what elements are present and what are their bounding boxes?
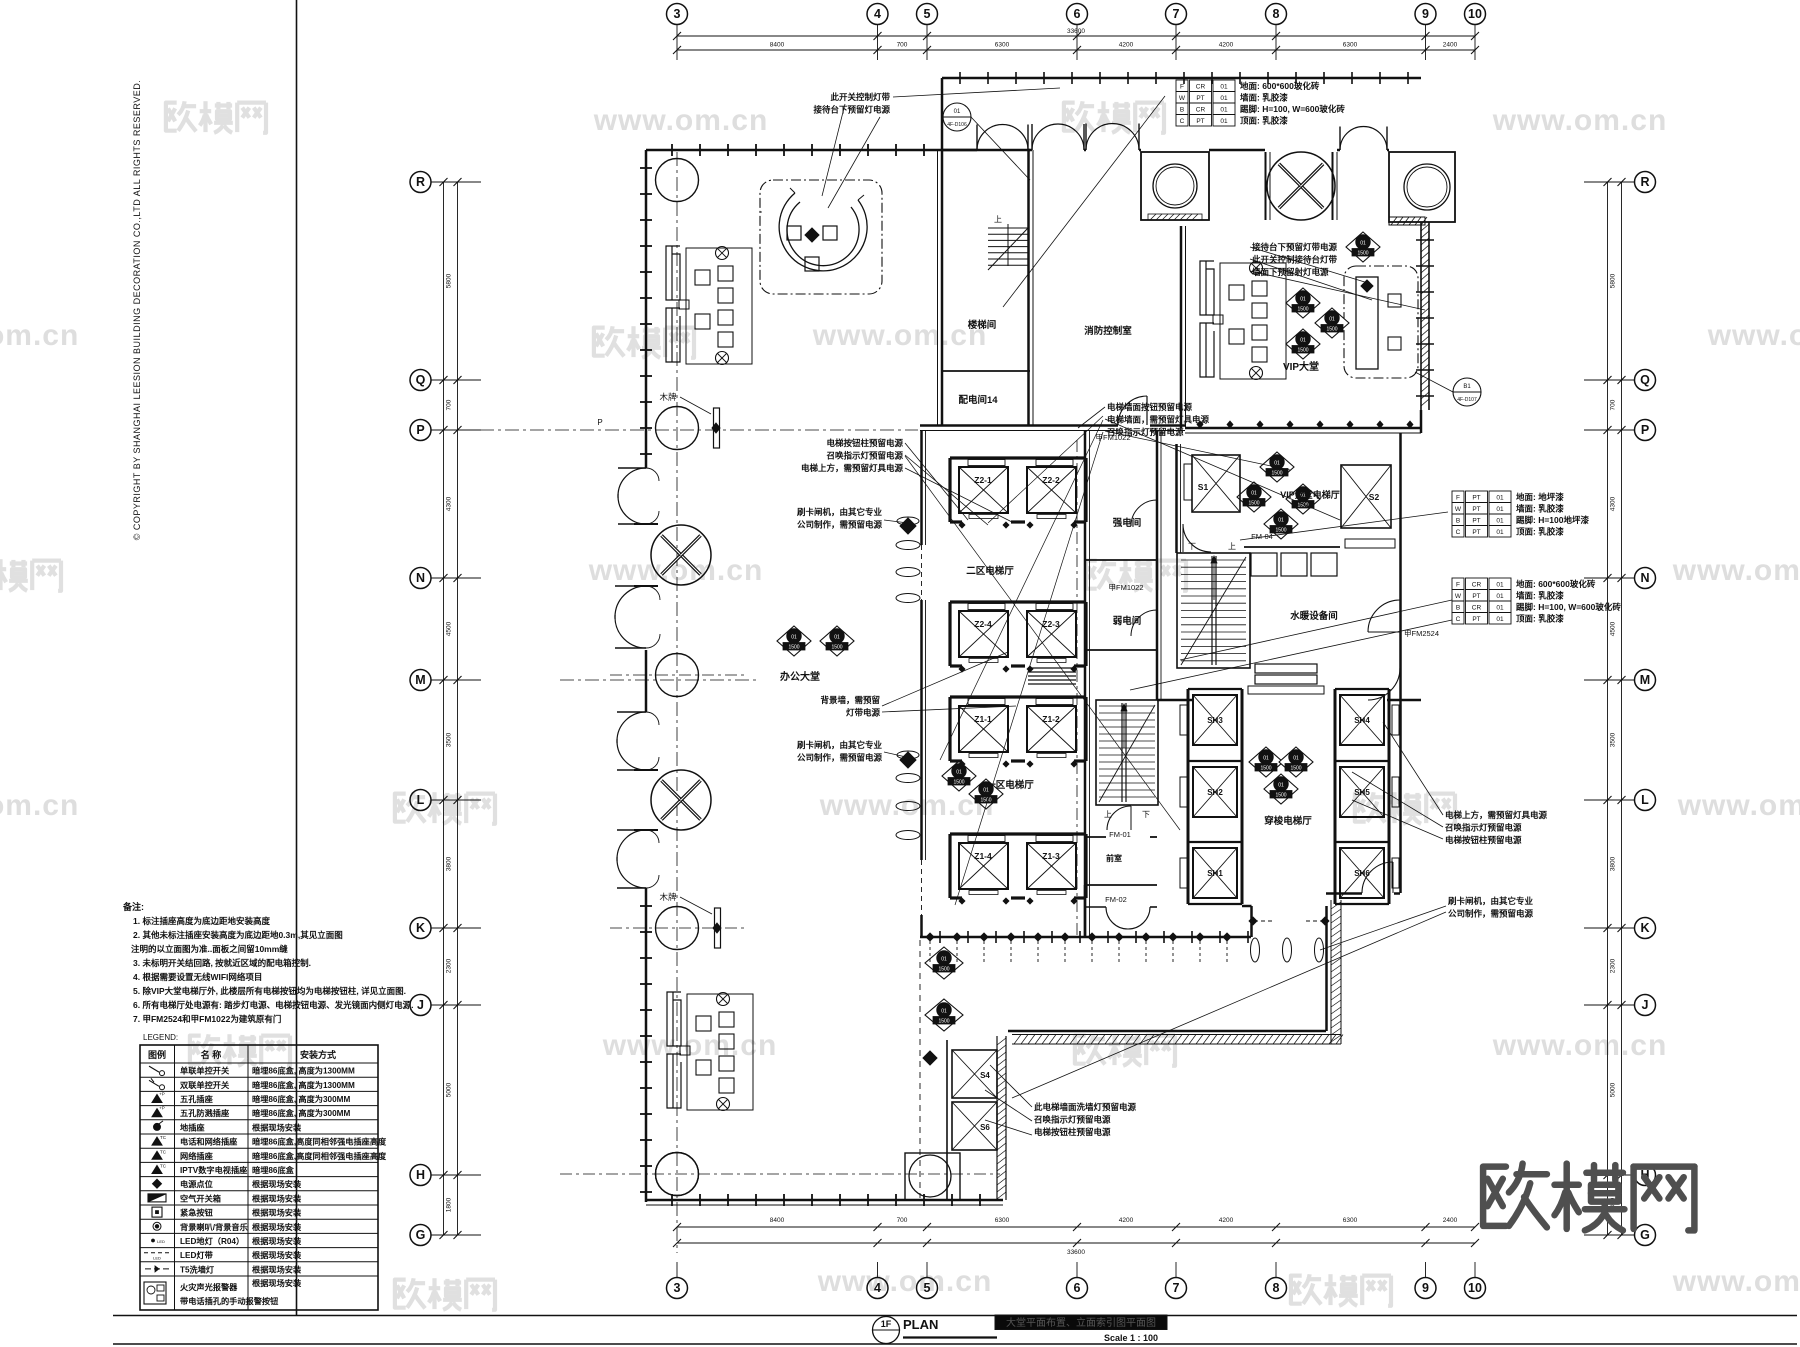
svg-text:办公大堂: 办公大堂 [780,670,820,683]
svg-text:www.om.cn: www.om.cn [1707,319,1800,352]
svg-text:背景喇叭/背景音乐: 背景喇叭/背景音乐 [180,1222,249,1232]
svg-text:01: 01 [791,635,797,641]
svg-text:4: 4 [874,7,881,21]
svg-text:TC: TC [160,1135,167,1140]
svg-text:踢脚: H=100, W=600玻化砖: 踢脚: H=100, W=600玻化砖 [1240,104,1345,114]
svg-text:5000: 5000 [446,1082,453,1097]
svg-text:01: 01 [1496,605,1504,612]
svg-text:电梯按钮柱预留电源: 电梯按钮柱预留电源 [1445,835,1522,845]
svg-text:1500: 1500 [1275,793,1286,799]
svg-text:01: 01 [1300,297,1306,303]
svg-text:五孔防溅插座: 五孔防溅插座 [180,1108,230,1118]
svg-text:4300: 4300 [1610,496,1617,511]
svg-text:穿梭电梯厅: 穿梭电梯厅 [1264,815,1312,827]
svg-text:刷卡闸机，由其它专业: 刷卡闸机，由其它专业 [796,507,883,517]
svg-text:www.om.cn: www.om.cn [0,789,79,822]
svg-text:根据现场安装: 根据现场安装 [252,1122,302,1132]
svg-text:五孔插座: 五孔插座 [180,1094,214,1104]
svg-text:L: L [1641,793,1649,807]
svg-text:R: R [1640,175,1649,189]
svg-text:www.om.cn: www.om.cn [817,1265,993,1298]
svg-text:二区电梯厅: 二区电梯厅 [966,565,1014,577]
svg-text:01: 01 [1220,95,1228,102]
svg-text:7: 7 [1173,1281,1180,1295]
svg-text:暗埋86底盒,高度同相邻强电插座高度: 暗埋86底盒,高度同相邻强电插座高度 [252,1151,387,1161]
svg-text:2. 其他未标注插座安装高度为底边距地0.3m,其见立面图: 2. 其他未标注插座安装高度为底边距地0.3m,其见立面图 [133,930,343,940]
svg-text:3800: 3800 [1610,856,1617,871]
svg-text:F: F [1180,84,1184,91]
svg-text:公司制作，需预留电源: 公司制作，需预留电源 [797,520,883,530]
svg-text:© COPYRIGHT BY SHANGHAI LE: © COPYRIGHT BY SHANGHAI LEESION BUILDING… [132,80,142,541]
svg-text:根据现场安装: 根据现场安装 [252,1208,302,1218]
svg-text:单联单控开关: 单联单控开关 [180,1066,230,1076]
svg-text:安装方式: 安装方式 [300,1049,336,1060]
svg-text:顶面: 乳胶漆: 顶面: 乳胶漆 [1240,116,1288,126]
svg-text:P: P [1641,423,1649,437]
svg-text:01: 01 [1274,461,1280,467]
svg-text:地插座: 地插座 [180,1122,205,1132]
svg-text:CR: CR [1196,84,1206,91]
svg-text:弱电间: 弱电间 [1113,615,1142,627]
svg-text:墙面下预留射灯电源: 墙面下预留射灯电源 [1252,267,1329,277]
svg-text:地面: 地坪漆: 地面: 地坪漆 [1516,492,1564,502]
svg-text:www.om.cn: www.om.cn [1672,1265,1800,1298]
svg-text:B: B [1456,518,1460,525]
svg-text:上: 上 [1228,542,1236,551]
svg-text:FM-04: FM-04 [1251,532,1273,541]
svg-text:楼梯间: 楼梯间 [968,319,997,331]
svg-text:01: 01 [1278,783,1284,789]
svg-text:木牌: 木牌 [659,392,677,402]
svg-text:暗埋86底盒, 高度为1300MM: 暗埋86底盒, 高度为1300MM [252,1066,355,1076]
svg-text:3800: 3800 [446,856,453,871]
svg-text:6300: 6300 [995,42,1010,49]
svg-text:01: 01 [1360,241,1366,247]
svg-text:踢脚: H=100, W=600玻化砖: 踢脚: H=100, W=600玻化砖 [1516,602,1621,612]
svg-text:消防控制室: 消防控制室 [1084,325,1132,337]
svg-text:暗埋86底盒: 暗埋86底盒 [252,1165,295,1175]
svg-text:SH4: SH4 [1354,716,1370,725]
svg-text:暗埋86底盒, 高度为300MM: 暗埋86底盒, 高度为300MM [252,1108,350,1118]
svg-text:S1: S1 [1198,482,1209,492]
svg-text:PT: PT [1472,616,1480,623]
svg-text:6: 6 [1074,1281,1081,1295]
svg-text:SH5: SH5 [1354,788,1370,797]
svg-text:暗埋86底盒,高度同相邻强电插座高度: 暗埋86底盒,高度同相邻强电插座高度 [252,1137,387,1147]
svg-text:木牌: 木牌 [659,892,677,902]
svg-text:www.om.cn: www.om.cn [593,104,769,137]
svg-text:4200: 4200 [1219,1217,1234,1224]
svg-text:1500: 1500 [1271,471,1282,477]
svg-text:700: 700 [446,399,453,410]
svg-text:2300: 2300 [1610,958,1617,973]
svg-text:FM-02: FM-02 [1105,895,1127,904]
svg-text:700: 700 [1610,399,1617,410]
svg-text:PT: PT [1472,518,1480,525]
svg-text:9: 9 [1422,7,1429,21]
svg-text:公司制作，需预留电源: 公司制作，需预留电源 [797,753,883,763]
svg-text:Z1-3: Z1-3 [1042,851,1060,861]
svg-text:01: 01 [1300,338,1306,344]
svg-text:2400: 2400 [1443,1217,1458,1224]
svg-text:电话和网络插座: 电话和网络插座 [180,1137,238,1147]
svg-text:G: G [416,1228,426,1242]
svg-text:SH1: SH1 [1207,869,1223,878]
svg-text:电梯上方，需预留灯具电源: 电梯上方，需预留灯具电源 [801,463,904,473]
svg-text:根据现场安装: 根据现场安装 [252,1250,302,1260]
svg-text:3500: 3500 [1610,732,1617,747]
svg-text:01: 01 [1220,118,1228,125]
svg-text:www.om.cn: www.om.cn [812,319,988,352]
svg-text:带电话插孔的手动报警按钮: 带电话插孔的手动报警按钮 [180,1296,279,1306]
svg-text:1500: 1500 [980,798,991,804]
svg-text:召唤指示灯预留电源: 召唤指示灯预留电源 [1034,1115,1111,1125]
svg-text:2400: 2400 [1443,42,1458,49]
svg-text:名 称: 名 称 [201,1049,222,1060]
svg-text:根据现场安装: 根据现场安装 [252,1222,302,1232]
svg-text:图例: 图例 [148,1049,166,1060]
svg-text:01: 01 [1496,529,1504,536]
svg-text:2300: 2300 [446,958,453,973]
svg-text:1500: 1500 [1260,766,1271,772]
svg-text:LED灯带: LED灯带 [180,1250,213,1260]
svg-text:01: 01 [834,635,840,641]
svg-text:1500: 1500 [1248,501,1259,507]
svg-text:T5洗墙灯: T5洗墙灯 [180,1264,215,1274]
svg-text:1500: 1500 [938,967,949,973]
svg-text:4500: 4500 [1610,621,1617,636]
svg-text:K: K [1640,921,1649,935]
svg-text:8: 8 [1273,7,1280,21]
svg-text:根据现场安装: 根据现场安装 [252,1179,302,1189]
svg-text:G: G [1640,1228,1650,1242]
svg-text:8400: 8400 [770,42,785,49]
svg-text:备注:: 备注: [122,901,144,912]
svg-text:1500: 1500 [1326,327,1337,333]
svg-text:1500: 1500 [1297,307,1308,313]
svg-text:www.om.cn: www.om.cn [1492,1029,1668,1062]
svg-text:M: M [1640,673,1650,687]
svg-text:此电梯墙面洗墙灯预留电源: 此电梯墙面洗墙灯预留电源 [1034,1102,1137,1112]
svg-text:5000: 5000 [1610,1082,1617,1097]
svg-text:甲FM1022: 甲FM1022 [1108,583,1143,592]
svg-text:接待台下预留灯电源: 接待台下预留灯电源 [813,105,890,115]
svg-text:PT: PT [1196,118,1204,125]
svg-text:www.om.cn: www.om.cn [1672,554,1800,587]
svg-text:强电间: 强电间 [1113,517,1142,529]
svg-text:+P: +P [159,1092,165,1097]
svg-text:01: 01 [1496,506,1504,513]
svg-text:刷卡闸机，由其它专业: 刷卡闸机，由其它专业 [1447,896,1534,906]
svg-text:01: 01 [1496,495,1504,502]
svg-text:Q: Q [1640,373,1650,387]
svg-text:LED地灯（R04）: LED地灯（R04） [180,1236,244,1246]
svg-text:01: 01 [1496,518,1504,525]
svg-text:电梯按钮柱预留电源: 电梯按钮柱预留电源 [1034,1127,1111,1137]
svg-text:4. 根据需要设置无线WIFI网络项目: 4. 根据需要设置无线WIFI网络项目 [133,972,262,982]
svg-text:J: J [1642,998,1649,1012]
svg-text:+P: +P [159,1106,165,1111]
svg-text:LED: LED [153,1256,161,1261]
svg-text:前室: 前室 [1106,853,1122,863]
svg-text:01: 01 [941,1009,947,1015]
svg-text:W: W [1455,593,1462,600]
svg-text:召唤指示灯预留电源: 召唤指示灯预留电源 [1445,823,1522,833]
svg-text:此开关控制灯带: 此开关控制灯带 [830,92,890,102]
svg-text:B: B [1456,605,1460,612]
svg-text:4: 4 [874,1281,881,1295]
svg-text:W: W [1179,95,1186,102]
svg-text:PT: PT [1472,529,1480,536]
svg-text:S4: S4 [980,1071,990,1080]
svg-text:N: N [1640,571,1649,585]
svg-text:5800: 5800 [446,273,453,288]
svg-text:1500: 1500 [1275,528,1286,534]
svg-text:PT: PT [1472,495,1480,502]
svg-text:01: 01 [941,957,947,963]
svg-text:8400: 8400 [770,1217,785,1224]
svg-text:01: 01 [1329,317,1335,323]
svg-text:甲FM2524: 甲FM2524 [1404,629,1439,638]
svg-text:1500: 1500 [953,780,964,786]
svg-text:Z2-2: Z2-2 [1042,475,1060,485]
svg-text:4500: 4500 [446,621,453,636]
svg-text:PT: PT [1196,95,1204,102]
svg-text:电源点位: 电源点位 [180,1179,213,1189]
svg-text:LEGEND:: LEGEND: [143,1033,178,1042]
svg-text:踢脚: H=100地坪漆: 踢脚: H=100地坪漆 [1516,515,1589,525]
svg-text:1500: 1500 [1357,251,1368,257]
svg-text:3: 3 [674,7,681,21]
svg-text:空气开关箱: 空气开关箱 [180,1193,221,1203]
svg-text:6: 6 [1074,7,1081,21]
svg-text:www.om.cn: www.om.cn [0,319,79,352]
svg-text:召唤指示灯预留电源: 召唤指示灯预留电源 [1107,427,1184,437]
svg-text:紧急按钮: 紧急按钮 [180,1208,214,1218]
svg-text:公司制作，需预留电源: 公司制作，需预留电源 [1448,909,1534,919]
svg-text:此开关控制接待台灯带: 此开关控制接待台灯带 [1252,255,1338,265]
svg-text:电梯上方，需预留灯具电源: 电梯上方，需预留灯具电源 [1445,810,1548,820]
svg-text:M: M [415,673,425,687]
svg-text:地面: 600*600玻化砖: 地面: 600*600玻化砖 [1240,81,1320,91]
svg-text:一区电梯厅: 一区电梯厅 [986,779,1034,791]
svg-text:根据现场安装: 根据现场安装 [252,1193,302,1203]
svg-text:6300: 6300 [995,1217,1010,1224]
svg-text:地面: 600*600玻化砖: 地面: 600*600玻化砖 [1516,579,1596,589]
svg-text:水暖设备间: 水暖设备间 [1290,610,1338,622]
svg-text:C: C [1456,616,1461,623]
svg-text:暗埋86底盒, 高度为1300MM: 暗埋86底盒, 高度为1300MM [252,1080,355,1090]
svg-text:N: N [416,571,425,585]
svg-text:9: 9 [1422,1281,1429,1295]
svg-text:S2: S2 [1369,492,1380,502]
svg-text:Z1-2: Z1-2 [1042,714,1060,724]
svg-text:S6: S6 [980,1123,990,1132]
svg-text:PLAN: PLAN [903,1317,938,1332]
svg-text:Z1-1: Z1-1 [974,714,992,724]
svg-text:R: R [416,175,425,189]
svg-text:3. 未标明开关结回路, 按就近区域的配电箱控制.: 3. 未标明开关结回路, 按就近区域的配电箱控制. [133,958,311,968]
svg-text:暗埋86底盒, 高度为300MM: 暗埋86底盒, 高度为300MM [252,1094,350,1104]
svg-text:CR: CR [1472,582,1482,589]
svg-text:4300: 4300 [446,496,453,511]
svg-text:上: 上 [994,215,1002,224]
svg-text:1F: 1F [881,1319,892,1329]
svg-text:墙面: 乳胶漆: 墙面: 乳胶漆 [1516,591,1564,601]
svg-text:Z2-3: Z2-3 [1042,619,1060,629]
svg-text:CR: CR [1472,605,1482,612]
svg-text:电梯墙面，需预留灯具电源: 电梯墙面，需预留灯具电源 [1107,415,1210,425]
svg-text:网络插座: 网络插座 [180,1151,214,1161]
svg-text:6. 所有电梯厅处电源有: 踏步灯电源、电梯按钮电源、发光镜: 6. 所有电梯厅处电源有: 踏步灯电源、电梯按钮电源、发光镜面内侧灯电源. [133,1000,414,1010]
svg-text:01: 01 [1278,518,1284,524]
svg-text:火灾声光报警器: 火灾声光报警器 [180,1282,238,1292]
svg-text:4200: 4200 [1219,42,1234,49]
svg-text:7: 7 [1173,7,1180,21]
svg-text:4200: 4200 [1119,42,1134,49]
svg-text:PT: PT [1472,593,1480,600]
svg-text:6300: 6300 [1343,42,1358,49]
svg-text:1. 标注插座高度为底边距地安装高度: 1. 标注插座高度为底边距地安装高度 [133,916,270,926]
svg-text:SH2: SH2 [1207,788,1223,797]
svg-text:01: 01 [1220,107,1228,114]
svg-text:3500: 3500 [446,732,453,747]
svg-text:4200: 4200 [1119,1217,1134,1224]
svg-text:下: 下 [1142,810,1150,819]
svg-text:双联单控开关: 双联单控开关 [180,1080,230,1090]
svg-text:K: K [416,921,425,935]
svg-text:1500: 1500 [938,1019,949,1025]
svg-text:3: 3 [674,1281,681,1295]
svg-text:B1: B1 [1463,384,1471,390]
svg-text:10: 10 [1468,7,1482,21]
svg-text:01: 01 [1220,84,1228,91]
svg-text:www.om.cn: www.om.cn [1677,789,1800,822]
svg-text:01: 01 [954,109,961,115]
svg-text:LED: LED [157,1239,165,1244]
svg-text:CR: CR [1196,107,1206,114]
svg-text:注明的以立面图为准..面板之间留10mm缝: 注明的以立面图为准..面板之间留10mm缝 [131,944,288,954]
svg-text:灯带电源: 灯带电源 [846,708,881,718]
svg-text:01: 01 [1251,491,1257,497]
svg-text:SH3: SH3 [1207,716,1223,725]
svg-text:6300: 6300 [1343,1217,1358,1224]
svg-text:根据现场安装: 根据现场安装 [252,1278,302,1288]
svg-text:C: C [1180,118,1185,125]
svg-text:召唤指示灯预留电源: 召唤指示灯预留电源 [826,451,903,461]
svg-text:根据现场安装: 根据现场安装 [252,1236,302,1246]
svg-text:1500: 1500 [1290,766,1301,772]
svg-text:顶面: 乳胶漆: 顶面: 乳胶漆 [1516,614,1564,624]
svg-text:F: F [1456,582,1460,589]
svg-text:墙面: 乳胶漆: 墙面: 乳胶漆 [1516,504,1564,514]
svg-text:Z2-1: Z2-1 [974,475,992,485]
svg-text:10: 10 [1468,1281,1482,1295]
svg-text:刷卡闸机，由其它专业: 刷卡闸机，由其它专业 [796,740,883,750]
svg-text:TC: TC [160,1149,167,1154]
svg-text:F: F [1456,495,1460,502]
svg-text:电梯墙面按钮预留电源: 电梯墙面按钮预留电源 [1107,402,1193,412]
svg-text:7. 甲FM2524和甲FM1022为建筑原有门: 7. 甲FM2524和甲FM1022为建筑原有门 [133,1014,281,1024]
svg-text:33600: 33600 [1067,1249,1085,1256]
svg-text:700: 700 [897,42,908,49]
svg-text:01: 01 [1293,756,1299,762]
svg-text:www.om.cn: www.om.cn [1492,104,1668,137]
svg-text:P: P [416,423,424,437]
svg-text:01: 01 [956,770,962,776]
svg-text:根据现场安装: 根据现场安装 [252,1264,302,1274]
svg-text:TC: TC [160,1164,167,1169]
svg-text:01: 01 [1496,582,1504,589]
svg-text:www.om.cn: www.om.cn [819,789,995,822]
svg-text:B: B [1180,107,1184,114]
svg-text:5. 除VIP大堂电梯厅外, 此楼层所有电梯按钮均为电梯按钮: 5. 除VIP大堂电梯厅外, 此楼层所有电梯按钮均为电梯按钮柱, 详见立面图. [133,986,406,996]
svg-text:Q: Q [416,373,426,387]
svg-text:1500: 1500 [788,645,799,651]
svg-text:33600: 33600 [1067,28,1085,35]
svg-text:配电间14: 配电间14 [958,394,998,406]
svg-text:Scale 1 : 100: Scale 1 : 100 [1104,1333,1158,1343]
svg-text:700: 700 [897,1217,908,1224]
svg-text:背景墙，需预留: 背景墙，需预留 [820,695,880,705]
svg-text:J: J [417,998,424,1012]
svg-text:5: 5 [924,7,931,21]
svg-text:5: 5 [924,1281,931,1295]
svg-text:1500: 1500 [1297,348,1308,354]
svg-text:VIP大堂: VIP大堂 [1283,360,1319,373]
svg-text:IPTV数字电视插座: IPTV数字电视插座 [180,1165,248,1175]
svg-text:L: L [417,793,425,807]
svg-text:Z2-4: Z2-4 [974,619,992,629]
svg-text:SH6: SH6 [1354,869,1370,878]
svg-text:PT: PT [1472,506,1480,513]
svg-text:1800: 1800 [446,1197,453,1212]
svg-text:FM-01: FM-01 [1109,830,1131,839]
svg-text:顶面: 乳胶漆: 顶面: 乳胶漆 [1516,527,1564,537]
svg-text:墙面: 乳胶漆: 墙面: 乳胶漆 [1240,93,1288,103]
svg-text:P: P [597,418,602,427]
svg-text:接待台下预留灯带电源: 接待台下预留灯带电源 [1252,242,1338,252]
svg-text:大堂平面布置、立面索引图平面图: 大堂平面布置、立面索引图平面图 [1006,1316,1156,1329]
svg-text:C: C [1456,529,1461,536]
svg-text:W: W [1455,506,1462,513]
svg-text:Z1-4: Z1-4 [974,851,992,861]
svg-text:H: H [416,1168,425,1182]
svg-text:8: 8 [1273,1281,1280,1295]
svg-text:电梯按钮柱预留电源: 电梯按钮柱预留电源 [826,438,903,448]
svg-text:5800: 5800 [1610,273,1617,288]
svg-text:01: 01 [1496,593,1504,600]
svg-text:1500: 1500 [831,645,842,651]
svg-text:4F-D106: 4F-D106 [947,122,967,128]
svg-text:01: 01 [1496,616,1504,623]
svg-text:4F-D107: 4F-D107 [1457,397,1477,403]
svg-text:01: 01 [1263,756,1269,762]
